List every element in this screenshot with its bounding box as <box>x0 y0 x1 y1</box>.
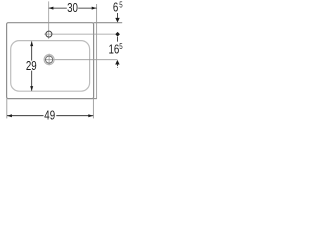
faucet hole centerline horizontal <box>44 33 119 35</box>
svg-text:16: 16 <box>108 43 119 57</box>
dimension 30 left arrow <box>49 7 54 10</box>
dimension 16.5 leader line upper <box>117 37 119 42</box>
svg-text:49: 49 <box>44 110 55 124</box>
svg-text:5: 5 <box>119 0 122 10</box>
right extension line of 49 dimension <box>92 99 94 119</box>
dimension 29 bottom arrow <box>30 86 33 91</box>
dimension 49 line left segment <box>7 115 44 117</box>
svg-text:6: 6 <box>113 1 118 15</box>
dimension 6.5 leader line <box>117 13 119 18</box>
ceramic outer outline <box>7 23 94 99</box>
dimension 49 right arrow <box>88 114 93 117</box>
right extension line of 30 dimension <box>96 4 98 99</box>
left extension line of 49 dimension <box>6 99 8 119</box>
dimension 6.5 down arrow <box>115 18 119 23</box>
dimension 30 right arrow <box>92 7 97 10</box>
bowl inner outline <box>11 41 90 92</box>
drain inner circle <box>46 56 53 63</box>
dimension dot on faucet centerline <box>115 32 120 37</box>
dimension 29 line lower segment <box>31 71 33 91</box>
faucet hole circle <box>46 31 52 37</box>
bottom edge extension segment <box>94 98 97 100</box>
dimension 49 line right segment <box>56 115 93 117</box>
svg-text:30: 30 <box>67 2 78 16</box>
dimension 16.5 leader tail <box>116 65 118 68</box>
dimension 30 line left segment <box>49 7 67 9</box>
drain centerline horizontal <box>45 59 118 61</box>
drain crosshair vertical <box>48 54 50 66</box>
svg-text:29: 29 <box>26 60 37 74</box>
dimension 49 left arrow <box>7 114 12 117</box>
faucet hole centerline vertical <box>48 1 50 39</box>
dimension 29 top arrow <box>30 41 33 46</box>
dimension 29 line upper segment <box>31 41 33 60</box>
svg-text:5: 5 <box>119 41 122 51</box>
dimension 16.5 up arrow <box>115 60 119 65</box>
drain outer circle <box>44 55 54 65</box>
top edge extension line to right dimension column <box>94 22 123 24</box>
dimension 30 line right segment <box>78 7 96 9</box>
